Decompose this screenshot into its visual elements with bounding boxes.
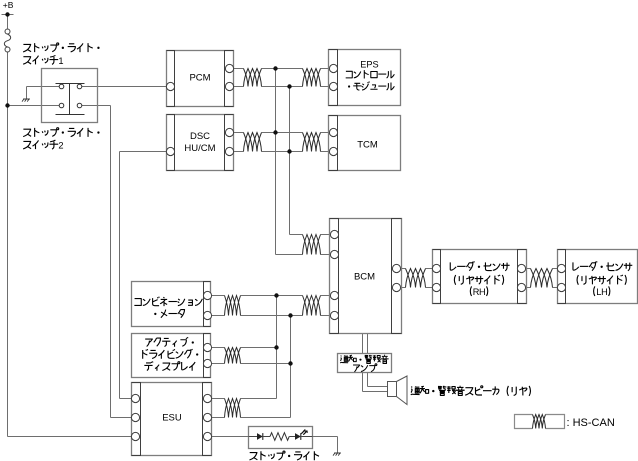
svg-text:TCM: TCM [357, 139, 378, 150]
svg-text:HU/CM: HU/CM [184, 143, 215, 154]
svg-text:PCM: PCM [189, 72, 210, 83]
svg-text:1: 1 [58, 56, 63, 66]
svg-text:: HS-CAN: : HS-CAN [567, 417, 615, 429]
svg-text:DSC: DSC [190, 131, 210, 142]
svg-text:+B: +B [3, 0, 14, 10]
svg-text:H: H [601, 287, 608, 297]
svg-text:2: 2 [58, 141, 63, 151]
svg-text:BCM: BCM [354, 271, 375, 282]
svg-text:EPS: EPS [360, 60, 378, 70]
svg-text:ESU: ESU [162, 413, 182, 424]
svg-text:H: H [479, 287, 486, 297]
